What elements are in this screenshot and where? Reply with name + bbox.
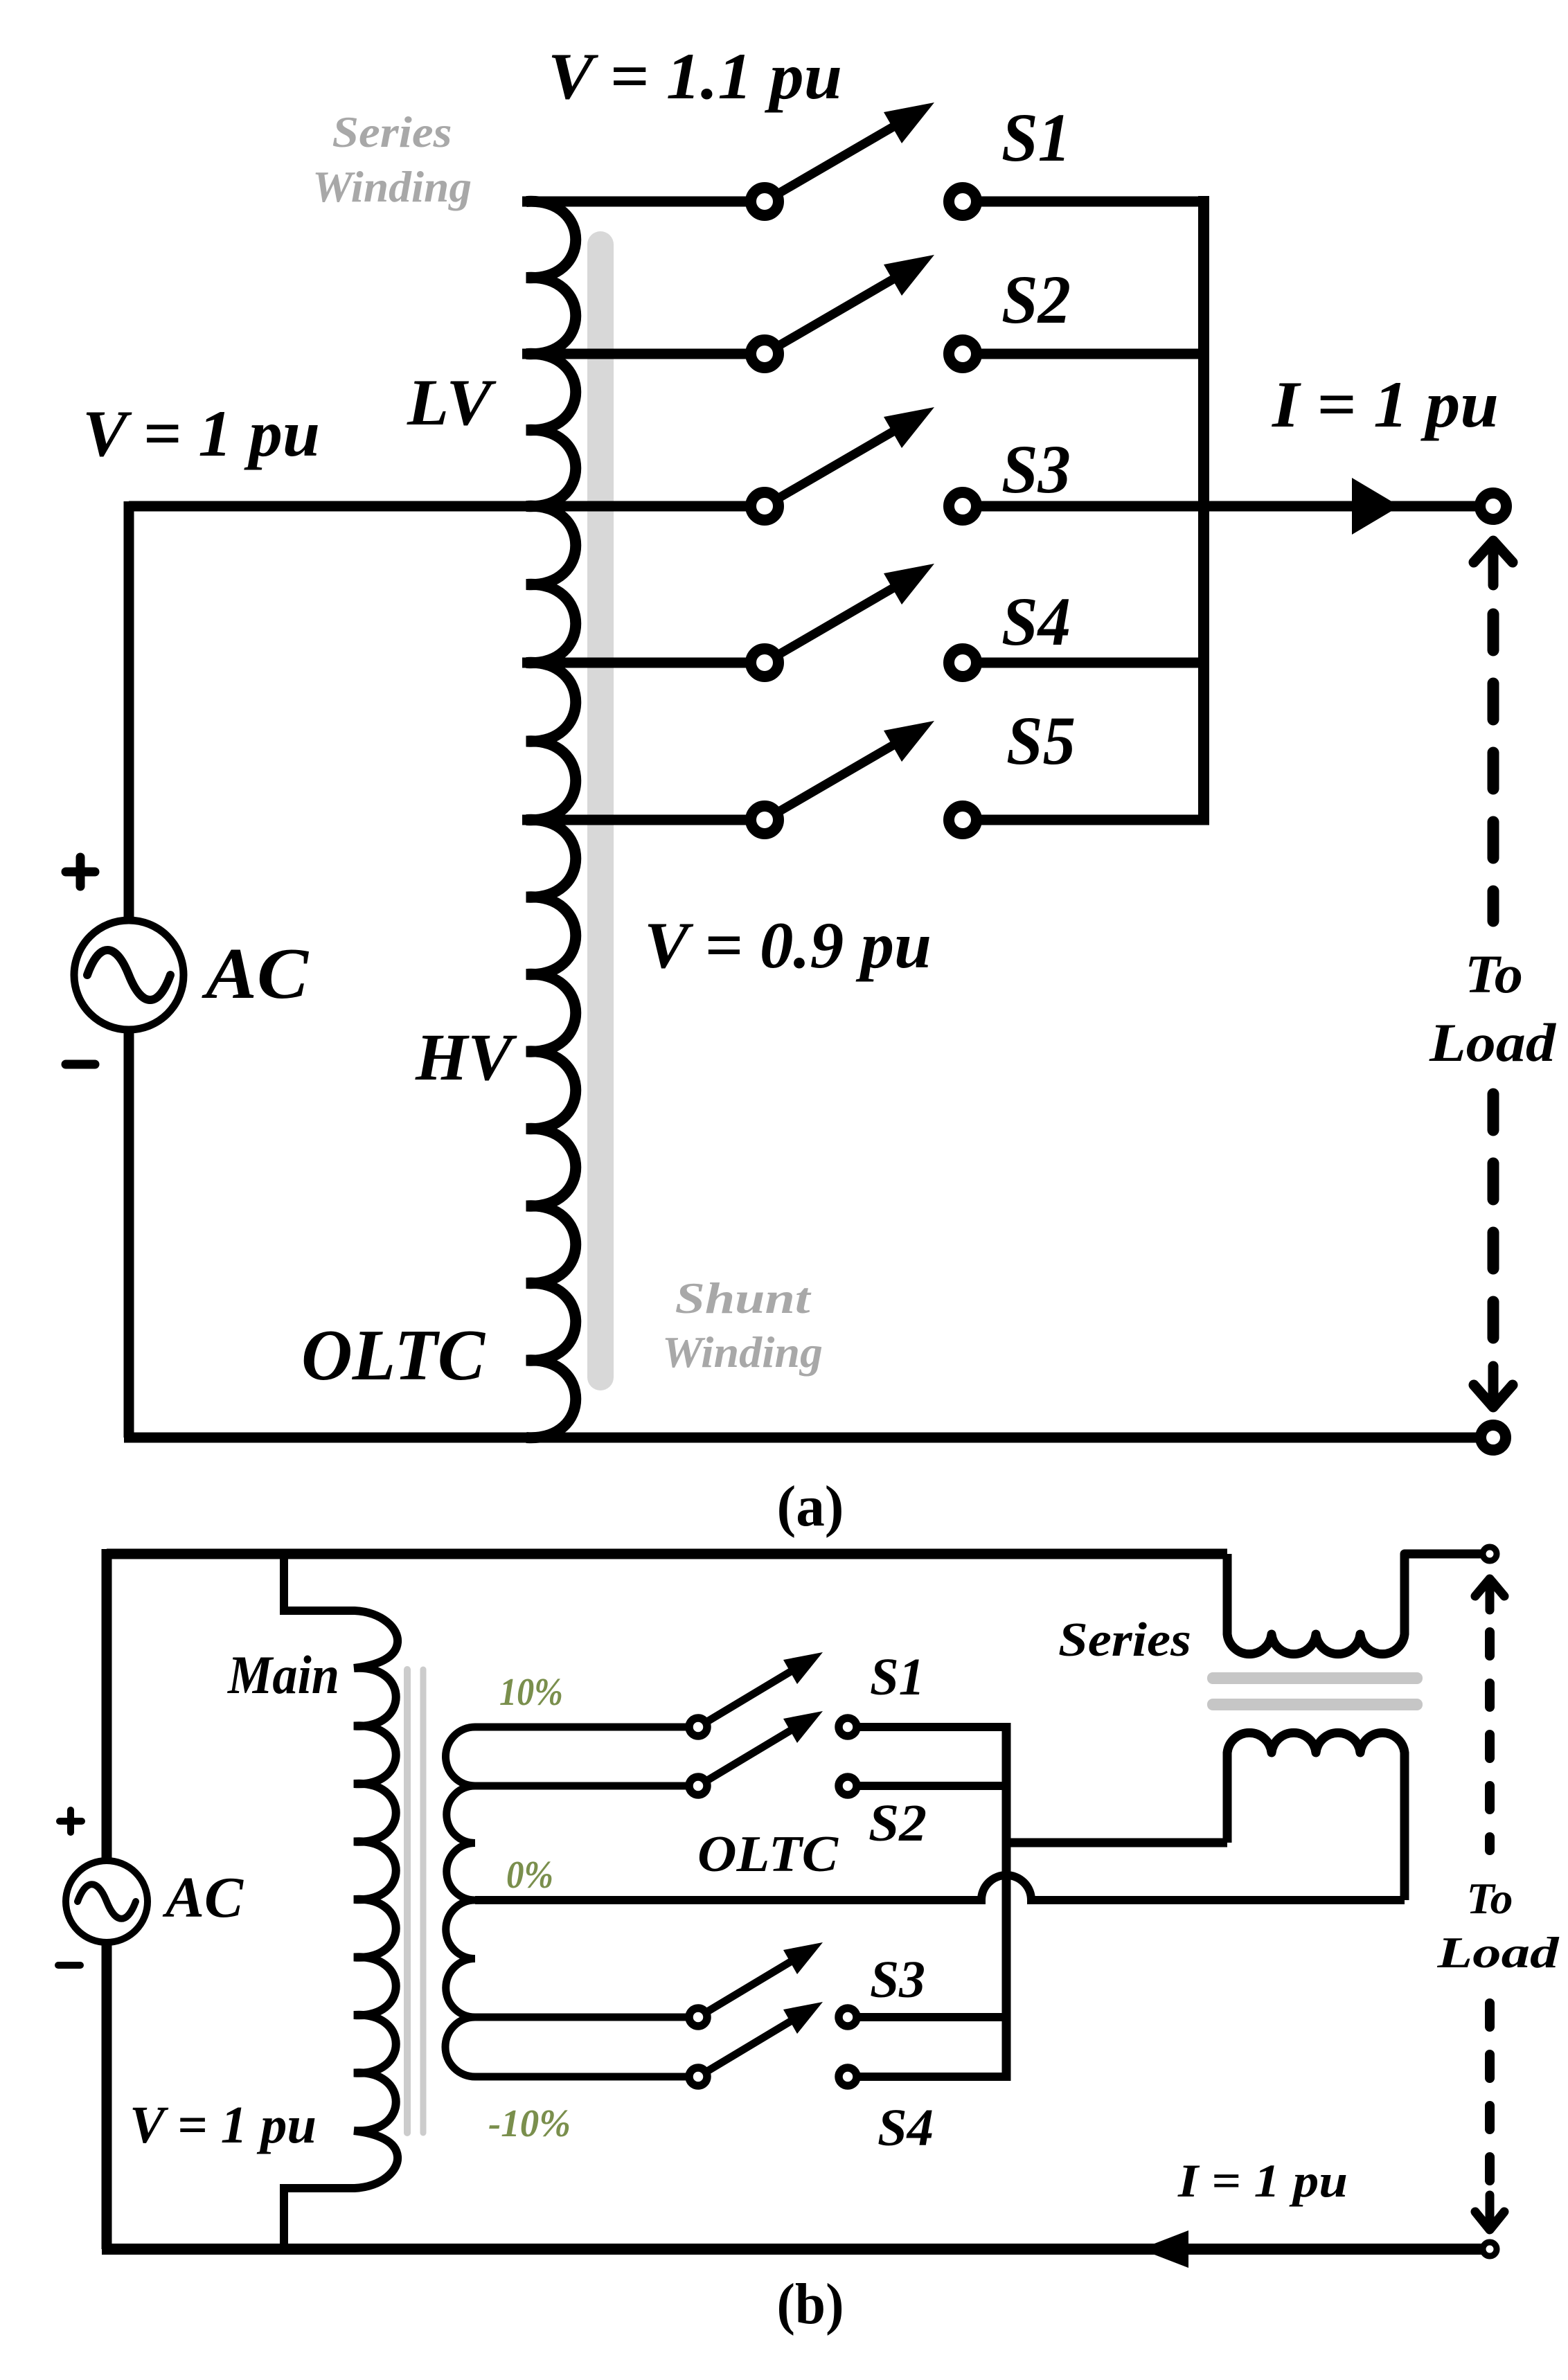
fig b up arrow	[1475, 1579, 1504, 1610]
svg-text:AC: AC	[202, 933, 310, 1014]
svg-text:S4: S4	[1001, 583, 1071, 660]
svg-text:S1: S1	[1001, 99, 1071, 176]
switch S5 blade	[765, 743, 897, 820]
fig b series transformer secondary	[1227, 1733, 1405, 1900]
fig b wire tap S1	[475, 1724, 698, 1731]
fig b frame: bottom wire	[102, 2244, 1490, 2255]
AC source V1	[74, 920, 184, 1030]
svg-text:(b): (b)	[777, 2272, 844, 2336]
switch S3 blade	[765, 429, 897, 506]
svg-text:V = 0.9 pu: V = 0.9 pu	[644, 909, 932, 982]
svg-text:S1: S1	[870, 1648, 925, 1706]
switch S3 fixed contact	[949, 492, 977, 520]
svg-text:Winding: Winding	[662, 1327, 823, 1377]
switch S4 hinge contact	[751, 649, 778, 677]
svg-text:HV: HV	[415, 1020, 517, 1094]
wire tap S4	[522, 658, 765, 668]
fig b switch S4 hinge contact	[689, 2068, 707, 2086]
svg-text:Series: Series	[1058, 1613, 1191, 1667]
svg-text:I = 1 pu: I = 1 pu	[1177, 2154, 1348, 2207]
fig b switch S1 hinge contact	[689, 1718, 707, 1736]
switch S5 fixed contact	[949, 806, 977, 834]
fig b switch S2 blade	[698, 1728, 795, 1786]
switch S5 hinge contact	[751, 806, 778, 834]
fig b wire tap S2	[475, 1782, 698, 1790]
fig b: gray core bars of series transformer	[1207, 1672, 1423, 1684]
wire tap S2	[522, 349, 765, 359]
switch S2 hinge contact	[751, 340, 778, 368]
svg-text:Main: Main	[226, 1645, 339, 1705]
svg-text:OLTC: OLTC	[697, 1826, 839, 1883]
to-load down arrow	[1474, 1366, 1513, 1407]
fig b switch S3 fixed contact	[839, 2008, 857, 2026]
svg-text:LV: LV	[407, 366, 497, 439]
current arrow I=1pu	[1352, 478, 1400, 535]
fig b wire S3 contact to bus	[848, 2013, 1006, 2021]
shunt winding core bar	[587, 231, 614, 1390]
fig b frame: left rail	[102, 1549, 112, 1862]
svg-text:To: To	[1465, 944, 1523, 1004]
svg-text:0%: 0%	[506, 1854, 553, 1897]
wire tap S5	[522, 815, 765, 825]
fig b minus	[58, 1962, 80, 1969]
fig b OLTC tapped winding left bends	[445, 1727, 475, 2077]
svg-text:I = 1 pu: I = 1 pu	[1272, 368, 1499, 441]
fig b return current arrow	[1140, 2230, 1188, 2268]
wire bottom return	[124, 1433, 1493, 1443]
svg-text:AC: AC	[162, 1865, 244, 1930]
to-load up arrow	[1474, 541, 1513, 585]
bottom terminal node	[1481, 1425, 1506, 1450]
fig b dashed load line lower	[1485, 2003, 1495, 2181]
fig b frame: top wire	[107, 1549, 1227, 1559]
fig b switch S3 blade	[698, 1959, 795, 2017]
fig b switch S1 blade	[698, 1669, 795, 1727]
switch S4 blade	[765, 586, 897, 663]
switch S4 fixed contact	[949, 649, 977, 677]
svg-text:S3: S3	[870, 1951, 925, 2009]
svg-text:Load: Load	[1429, 1012, 1556, 1073]
wire tap S1	[522, 197, 765, 207]
fig b bus vertical	[1002, 1723, 1011, 2081]
svg-text:V = 1.1 pu: V = 1.1 pu	[548, 39, 842, 113]
dashed load line upper	[1488, 614, 1499, 921]
fig b switch S4 fixed contact	[839, 2068, 857, 2086]
svg-text:V = 1 pu: V = 1 pu	[130, 2096, 317, 2154]
fig b dashed load line upper	[1485, 1632, 1495, 1850]
fig b bottom terminal node	[1483, 2242, 1497, 2256]
fig b down arrow	[1475, 2195, 1504, 2230]
wire output S3 to terminal	[963, 501, 1493, 512]
switch S3 hinge contact	[751, 492, 778, 520]
plus terminal	[66, 857, 95, 886]
svg-text:Load: Load	[1436, 1928, 1560, 1977]
wire left rail bottom	[124, 1029, 134, 1438]
wire V=1pu input (left horizontal at S3 tap)	[129, 501, 765, 512]
fig b wire S1 contact to bus	[848, 1723, 1006, 1731]
fig b switch S3 hinge contact	[689, 2008, 707, 2026]
fig b wire tap S4	[475, 2073, 698, 2081]
fig b switch S4 blade	[698, 2019, 795, 2077]
wire S1 contact to bus	[963, 197, 1209, 207]
fig b top terminal node	[1483, 1547, 1497, 1561]
svg-text:S2: S2	[868, 1794, 927, 1852]
svg-text:S4: S4	[877, 2099, 934, 2157]
fig b wire bus to series transformer secondary	[1006, 1838, 1227, 1847]
svg-text:S5: S5	[1006, 702, 1076, 779]
dashed load line lower	[1488, 1094, 1499, 1347]
fig b AC source	[66, 1861, 148, 1942]
fig b switch S2 hinge contact	[689, 1777, 707, 1795]
fig b 0% tap wire with hop over bus	[475, 1875, 1405, 1900]
wire left rail top	[124, 501, 134, 921]
svg-text:S3: S3	[1001, 431, 1071, 508]
wire S4 contact to bus	[963, 658, 1209, 668]
fig b main winding	[284, 1554, 398, 2249]
fig b switch S2 fixed contact	[839, 1777, 857, 1795]
switch S1 hinge contact	[751, 188, 778, 215]
switch S1 blade	[765, 125, 897, 202]
minus terminal	[66, 1060, 95, 1069]
svg-text:10%: 10%	[499, 1671, 563, 1714]
fig b wire tap S3	[475, 2014, 698, 2021]
output terminal node	[1480, 493, 1506, 519]
svg-text:Shunt: Shunt	[675, 1273, 812, 1323]
fig b series transformer primary	[1227, 1554, 1490, 1654]
fig b wire S2 contact to bus	[848, 1782, 1006, 1790]
switch S2 blade	[765, 277, 897, 354]
wire S2 contact to bus	[963, 349, 1209, 359]
bus vertical joining S1..S5	[1198, 196, 1209, 825]
wire S5 contact to bus	[963, 815, 1209, 825]
svg-text:Series: Series	[332, 108, 452, 156]
svg-text:-10%: -10%	[488, 2102, 571, 2145]
fig b wire S4 contact to bus	[848, 2073, 1006, 2081]
winding LV/HV (tapped autotransformer winding)	[526, 202, 576, 1438]
fig b switch S1 fixed contact	[839, 1718, 857, 1736]
svg-text:OLTC: OLTC	[301, 1314, 486, 1395]
svg-text:To: To	[1467, 1874, 1513, 1923]
switch S1 fixed contact	[949, 188, 977, 215]
svg-text:V = 1 pu: V = 1 pu	[82, 397, 320, 470]
svg-text:S2: S2	[1001, 261, 1071, 338]
fig b plus	[60, 1810, 82, 1832]
switch S2 fixed contact	[949, 340, 977, 368]
svg-text:Winding: Winding	[312, 163, 472, 211]
fig b: gray core lines of main transformer	[404, 1670, 411, 2133]
svg-text:(a): (a)	[777, 1474, 844, 1539]
